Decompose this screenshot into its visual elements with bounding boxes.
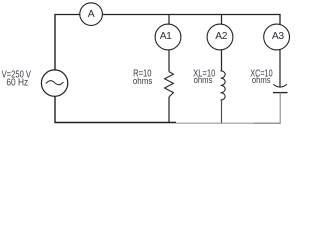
svg-text:ohms: ohms <box>252 74 271 85</box>
ammeter A1 <box>155 24 181 50</box>
wire branch-1 top stub <box>168 15 170 25</box>
svg-text:A2: A2 <box>215 31 227 42</box>
wire branch-2 top stub <box>221 15 223 25</box>
wire below resistor <box>168 97 170 123</box>
wire below source <box>54 96 56 122</box>
wire bottom-left segment <box>54 122 176 124</box>
value label XL=10 ohms <box>193 68 216 85</box>
wire top-left segment <box>55 14 80 16</box>
svg-text:A3: A3 <box>272 31 284 42</box>
wire bottom-right dark segment <box>254 122 281 124</box>
svg-text:A: A <box>88 9 95 20</box>
wire left vertical <box>54 14 56 70</box>
svg-text:60 Hz: 60 Hz <box>6 78 28 89</box>
wire A3 to capacitor <box>279 49 281 87</box>
wire branch-3 top stub <box>279 14 281 25</box>
AC source V1 <box>41 70 67 96</box>
wire bottom-right segment <box>176 122 254 124</box>
value label R=10 ohms <box>133 69 153 87</box>
ammeter A3 <box>264 24 290 50</box>
wire below inductor <box>221 100 223 123</box>
svg-text:ohms: ohms <box>133 75 153 86</box>
value label V=250 V / 60 Hz <box>2 69 32 88</box>
svg-text:A1: A1 <box>160 31 172 42</box>
capacitor XC <box>273 84 288 92</box>
inductor XL <box>221 70 226 100</box>
wire below capacitor <box>279 93 281 124</box>
svg-text:ohms: ohms <box>194 74 213 85</box>
ammeter A <box>80 3 103 26</box>
value label XC=10 ohms <box>250 68 273 85</box>
resistor R <box>165 72 174 97</box>
wire top main segment <box>102 14 280 16</box>
wire A1 to resistor <box>168 50 170 72</box>
ammeter A2 <box>207 24 233 50</box>
wire A2 to inductor <box>221 50 223 71</box>
